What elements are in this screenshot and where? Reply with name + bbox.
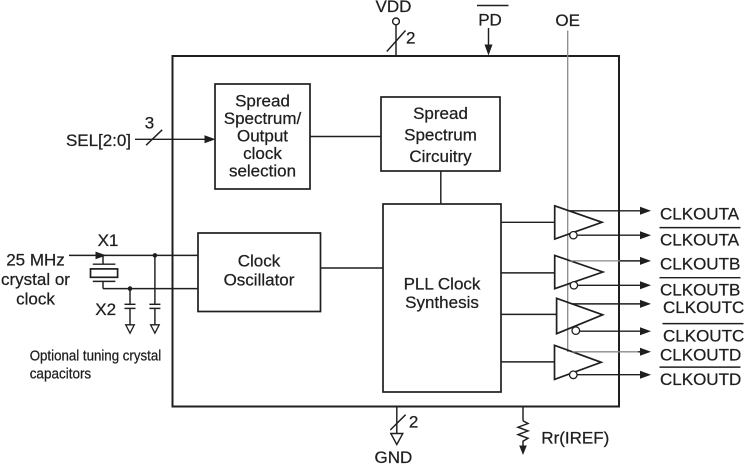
wire VDD to box xyxy=(395,25,397,56)
label bus width 3 xyxy=(145,114,154,133)
svg-text:3: 3 xyxy=(145,114,154,133)
capacitor C1 xyxy=(125,289,136,334)
svg-text:GND: GND xyxy=(375,448,413,465)
svg-text:2: 2 xyxy=(406,29,415,48)
label CLKOUTA xyxy=(660,205,740,224)
wire U3 to U4 xyxy=(321,267,384,269)
note Optional tuning crystal capacitors xyxy=(30,349,162,383)
wire CLKOUTB-bar with arrow xyxy=(578,281,651,289)
wire U4 to buffer B xyxy=(501,272,555,274)
wire U4 to buffer D xyxy=(501,361,555,363)
block U2 Spread Spectrum Circuitry xyxy=(381,97,500,171)
block U1 Spread Spectrum / Output clock selection xyxy=(215,84,310,189)
svg-text:X2: X2 xyxy=(95,300,116,319)
resistor Rr xyxy=(518,421,528,455)
label CLKOUTB xyxy=(660,255,740,274)
pin OE label xyxy=(555,11,580,30)
buffer A xyxy=(555,206,602,239)
svg-text:Optional tuning crystal: Optional tuning crystal xyxy=(30,349,162,365)
svg-text:Clock: Clock xyxy=(238,252,281,271)
buffer B xyxy=(555,256,603,289)
wire CLKOUTC with arrow xyxy=(572,300,651,308)
pin GND label xyxy=(375,448,413,465)
pin label SEL[2:0] xyxy=(66,131,131,150)
bus slash SEL xyxy=(146,130,162,145)
wire PD arrow into box xyxy=(485,28,493,56)
svg-text:PD: PD xyxy=(478,11,502,30)
wire U1 to U2 xyxy=(310,136,381,138)
svg-text:X1: X1 xyxy=(98,231,119,250)
wire U4 to buffer C xyxy=(501,313,557,315)
svg-text:CLKOUTB: CLKOUTB xyxy=(660,281,740,300)
node junction on X1 wire xyxy=(153,253,158,258)
node junction on X2 wire xyxy=(128,286,133,291)
svg-text:CLKOUTC: CLKOUTC xyxy=(663,327,744,346)
wire CLKOUTA-bar with arrow xyxy=(577,231,651,239)
svg-text:Rr(IREF): Rr(IREF) xyxy=(541,429,609,448)
wire CLKOUTC-bar with arrow xyxy=(580,327,651,335)
label CLKOUTB-bar xyxy=(660,278,741,300)
wire SEL bus to selection block with arrow xyxy=(135,135,216,143)
bus slash VDD xyxy=(387,31,406,52)
svg-text:Synthesis: Synthesis xyxy=(405,293,479,312)
label CLKOUTC xyxy=(663,298,744,317)
svg-text:clock: clock xyxy=(243,144,282,163)
svg-text:Spectrum/: Spectrum/ xyxy=(224,109,302,128)
svg-text:CLKOUTA: CLKOUTA xyxy=(660,231,740,250)
svg-text:Spread: Spread xyxy=(413,104,468,123)
label bus width 2 (GND) xyxy=(409,413,418,432)
svg-text:Oscillator: Oscillator xyxy=(224,271,295,290)
ground arrow symbol xyxy=(391,434,403,445)
label CLKOUTD-bar xyxy=(660,367,742,389)
label CLKOUTA-bar xyxy=(660,228,741,250)
svg-text:Output: Output xyxy=(237,127,288,146)
pin VDD label xyxy=(376,0,412,16)
svg-text:CLKOUTD: CLKOUTD xyxy=(660,346,741,365)
wire GND from box bottom xyxy=(396,407,398,434)
svg-text:Spectrum: Spectrum xyxy=(404,126,477,145)
bus slash GND xyxy=(390,415,405,430)
svg-text:CLKOUTA: CLKOUTA xyxy=(660,205,740,224)
terminal circle VDD xyxy=(393,18,400,25)
svg-text:CLKOUTD: CLKOUTD xyxy=(660,370,741,389)
pin PD label (active low) xyxy=(477,6,509,30)
wire OE (enable net down to buffers) xyxy=(567,31,569,353)
svg-text:SEL[2:0]: SEL[2:0] xyxy=(66,131,131,150)
label 25 MHz crystal or clock xyxy=(1,251,70,309)
main IC boundary box xyxy=(173,56,620,407)
wire X2 line into oscillator xyxy=(103,288,198,290)
wire U2 to U4 xyxy=(440,171,442,204)
block U3 Clock Oscillator xyxy=(198,233,321,312)
label bus width 2 (VDD) xyxy=(406,29,415,48)
wire CLKOUTA with arrow xyxy=(569,207,651,215)
block U4 PLL Clock Synthesis xyxy=(383,204,501,392)
wire X1 line into oscillator xyxy=(69,252,198,260)
label CLKOUTC-bar xyxy=(663,324,745,346)
wire CLKOUTD-bar with arrow xyxy=(577,371,651,379)
svg-text:PLL Clock: PLL Clock xyxy=(404,274,481,293)
wire CLKOUTB with arrow xyxy=(570,257,651,265)
svg-text:clock: clock xyxy=(16,290,55,309)
svg-text:CLKOUTC: CLKOUTC xyxy=(663,298,744,317)
svg-text:crystal or: crystal or xyxy=(1,270,70,289)
wire U4 to buffer A xyxy=(501,221,555,223)
svg-text:capacitors: capacitors xyxy=(30,367,91,383)
svg-text:selection: selection xyxy=(229,162,296,181)
buffer D xyxy=(555,345,602,379)
svg-text:Circuitry: Circuitry xyxy=(409,147,472,166)
svg-text:Spread: Spread xyxy=(235,92,290,111)
capacitor C2 xyxy=(149,255,160,333)
svg-text:25 MHz: 25 MHz xyxy=(6,251,65,270)
label X2 xyxy=(95,300,116,319)
wire CLKOUTD with arrow xyxy=(572,348,651,356)
svg-text:OE: OE xyxy=(555,11,580,30)
label CLKOUTD xyxy=(660,346,741,365)
svg-text:2: 2 xyxy=(409,413,418,432)
label X1 xyxy=(98,231,119,250)
wire from box bottom to resistor xyxy=(522,407,524,421)
label Rr(IREF) xyxy=(541,429,609,448)
buffer C xyxy=(557,298,603,334)
crystal Y1 xyxy=(91,255,118,288)
svg-text:VDD: VDD xyxy=(376,0,412,16)
svg-text:CLKOUTB: CLKOUTB xyxy=(660,255,740,274)
